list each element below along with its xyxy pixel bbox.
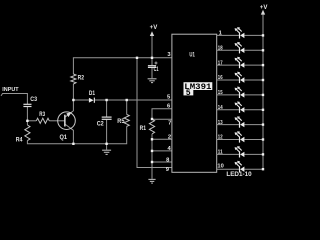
- svg-text:10: 10: [217, 163, 223, 169]
- svg-text:Q1: Q1: [60, 135, 68, 141]
- svg-text:18: 18: [218, 46, 223, 52]
- svg-text:C3: C3: [30, 97, 37, 103]
- svg-text:R4: R4: [16, 138, 23, 144]
- svg-text:LED1-10: LED1-10: [226, 172, 252, 178]
- svg-text:14: 14: [218, 105, 223, 111]
- svg-text:5: 5: [186, 89, 191, 98]
- svg-text:C1: C1: [154, 67, 159, 73]
- svg-text:R2: R2: [78, 75, 85, 81]
- svg-text:17: 17: [218, 60, 223, 66]
- svg-text:15: 15: [218, 90, 223, 96]
- svg-text:C2: C2: [97, 122, 105, 128]
- svg-text:13: 13: [218, 120, 223, 126]
- svg-text:12: 12: [218, 135, 223, 141]
- svg-text:D1: D1: [89, 91, 96, 97]
- svg-text:U1: U1: [189, 53, 195, 59]
- svg-text:7: 7: [168, 121, 171, 127]
- svg-text:INPUT: INPUT: [2, 87, 19, 93]
- svg-text:R1: R1: [140, 126, 147, 132]
- svg-text:+V: +V: [260, 5, 268, 11]
- svg-text:+V: +V: [150, 25, 158, 31]
- svg-text:R5: R5: [117, 119, 125, 125]
- svg-text:16: 16: [218, 75, 223, 81]
- svg-text:R3: R3: [39, 112, 45, 118]
- svg-text:11: 11: [218, 150, 223, 156]
- svg-text:2: 2: [168, 135, 171, 141]
